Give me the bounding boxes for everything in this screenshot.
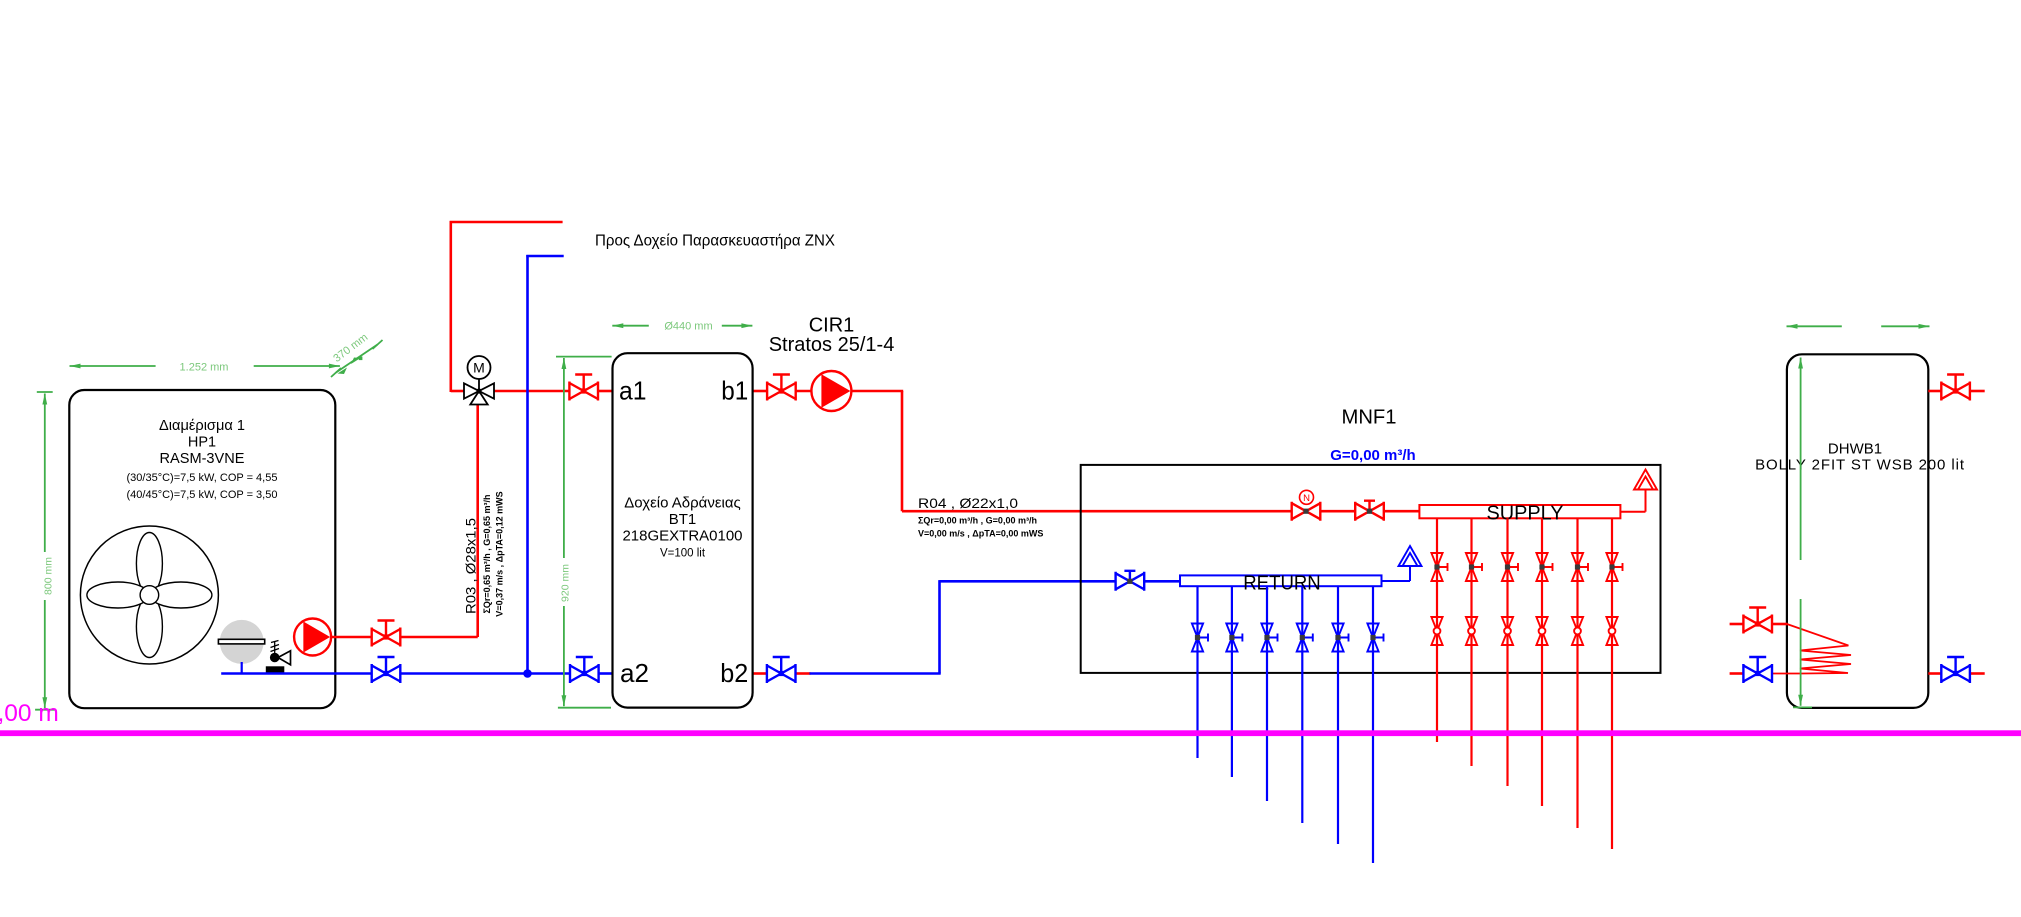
svg-text:N: N — [1303, 493, 1310, 504]
svg-text:218GEXTRA0100: 218GEXTRA0100 — [622, 528, 742, 545]
svg-text:R03 , Ø28x1,5: R03 , Ø28x1,5 — [462, 518, 478, 614]
svg-text:Stratos 25/1-4: Stratos 25/1-4 — [769, 334, 895, 356]
svg-text:BT1: BT1 — [669, 511, 697, 528]
svg-text:M: M — [473, 360, 485, 376]
svg-text:,00 m: ,00 m — [0, 700, 59, 727]
svg-text:(30/35°C)=7,5 kW, COP = 4,55: (30/35°C)=7,5 kW, COP = 4,55 — [127, 472, 278, 484]
svg-text:Δοχείο Αδράνειας: Δοχείο Αδράνειας — [624, 495, 741, 512]
svg-text:(40/45°C)=7,5 kW, COP = 3,50: (40/45°C)=7,5 kW, COP = 3,50 — [127, 489, 278, 501]
svg-text:a1: a1 — [619, 376, 647, 406]
svg-text:HP1: HP1 — [188, 435, 216, 451]
svg-text:ΣQr=0,65 m³/h , G=0,65 m³/h: ΣQr=0,65 m³/h , G=0,65 m³/h — [482, 495, 492, 614]
svg-text:800 mm: 800 mm — [42, 557, 54, 595]
svg-text:G=0,00 m³/h: G=0,00 m³/h — [1330, 447, 1415, 464]
svg-text:V=100 lit: V=100 lit — [660, 548, 706, 560]
svg-text:a2: a2 — [620, 658, 649, 688]
svg-text:ΣQr=0,00 m³/h , G=0,00 m³/h: ΣQr=0,00 m³/h , G=0,00 m³/h — [918, 516, 1037, 526]
svg-text:1.252 mm: 1.252 mm — [180, 362, 229, 374]
svg-text:V=0,00 m/s , ΔpTA=0,00 mWS: V=0,00 m/s , ΔpTA=0,00 mWS — [918, 529, 1043, 539]
svg-text:DHWB1: DHWB1 — [1828, 441, 1882, 458]
svg-text:RETURN: RETURN — [1243, 573, 1321, 595]
svg-text:MNF1: MNF1 — [1342, 406, 1397, 429]
svg-text:V=0,37 m/s , ΔpTA=0,12 mWS: V=0,37 m/s , ΔpTA=0,12 mWS — [495, 491, 505, 616]
svg-text:920 mm: 920 mm — [559, 564, 571, 602]
svg-text:Ø440 mm: Ø440 mm — [664, 321, 712, 333]
svg-text:SUPPLY: SUPPLY — [1487, 502, 1564, 525]
svg-text:BOLLY 2FIT ST WSB 200 lit: BOLLY 2FIT ST WSB 200 lit — [1755, 456, 1965, 473]
svg-text:RASM-3VNE: RASM-3VNE — [160, 451, 245, 467]
svg-text:b2: b2 — [720, 658, 748, 688]
svg-text:Προς Δοχείο Παρασκευαστήρα ZNX: Προς Δοχείο Παρασκευαστήρα ZNX — [595, 232, 836, 249]
svg-text:b1: b1 — [721, 376, 748, 406]
svg-text:R04 , Ø22x1,0: R04 , Ø22x1,0 — [918, 495, 1018, 511]
svg-text:Διαμέρισμα 1: Διαμέρισμα 1 — [159, 418, 245, 434]
